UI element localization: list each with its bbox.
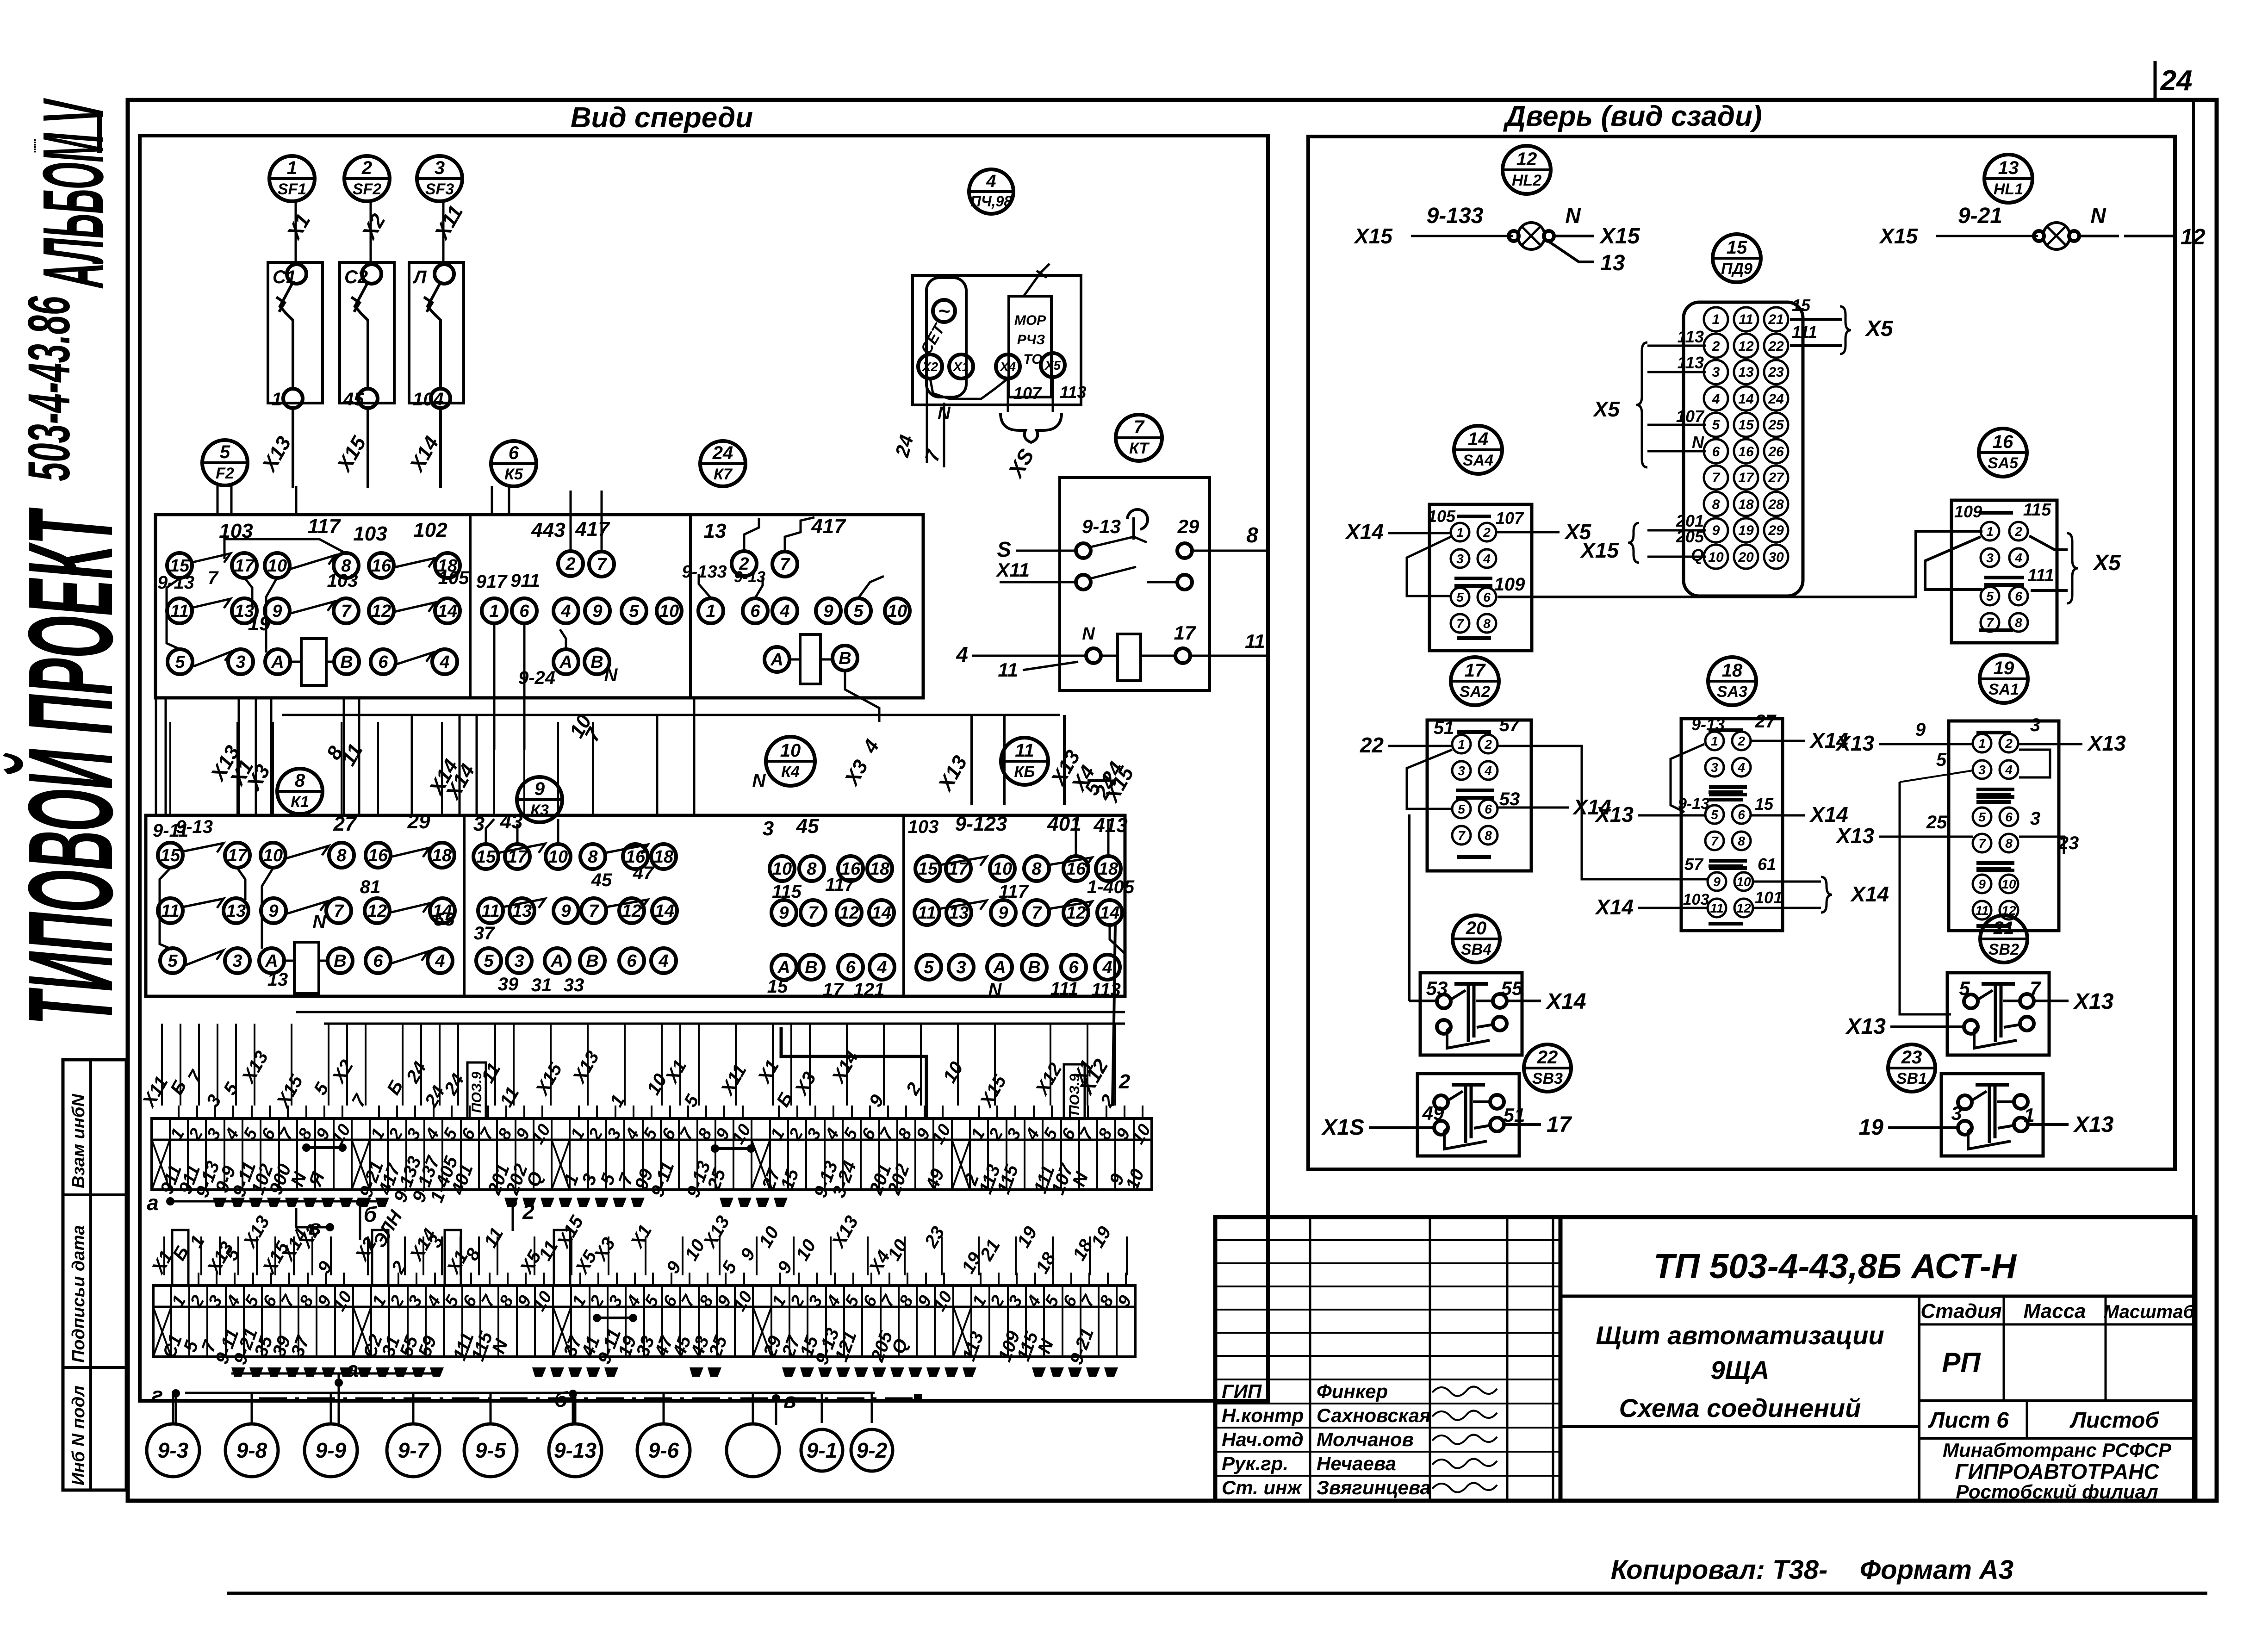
svg-text:HL1: HL1 xyxy=(1994,180,2023,198)
svg-text:57: 57 xyxy=(1684,855,1704,874)
svg-text:9-6: 9-6 xyxy=(648,1438,679,1462)
title divider under subject xyxy=(1560,1425,1919,1428)
band2 sec1 hooks xyxy=(160,868,173,950)
svg-text:28: 28 xyxy=(1768,497,1784,512)
wire X12 from band2 right edge xyxy=(1112,924,1115,1106)
front-view panel box xyxy=(140,136,1268,1401)
svg-text:Формат А3: Формат А3 xyxy=(1860,1555,2013,1585)
svg-text:4: 4 xyxy=(986,172,996,191)
svg-text:б: б xyxy=(364,1202,378,1226)
relay K7 designator xyxy=(700,441,746,486)
svg-text:SA3: SA3 xyxy=(1717,683,1747,701)
strip B collector to node b xyxy=(569,1390,577,1398)
svg-text:Нач.отд: Нач.отд xyxy=(1222,1429,1304,1450)
svg-text:10: 10 xyxy=(548,847,568,867)
svg-text:7: 7 xyxy=(1986,615,1994,630)
breaker SF3 bottom terminal xyxy=(431,389,450,408)
band2 sec1 circles row2 xyxy=(158,898,183,923)
lamp HL2 wire 13 xyxy=(1549,242,1594,262)
svg-text:8: 8 xyxy=(1485,828,1492,843)
SA1 right hooks xyxy=(2019,750,2050,777)
svg-text:113: 113 xyxy=(1678,353,1704,372)
svg-text:3: 3 xyxy=(1978,763,1986,777)
svg-text:117: 117 xyxy=(999,882,1029,902)
svg-text:7: 7 xyxy=(1134,417,1145,437)
svg-text:6: 6 xyxy=(750,602,760,621)
svg-text:21: 21 xyxy=(1768,312,1783,327)
KT right terminal 17 xyxy=(1175,648,1190,663)
svg-text:9: 9 xyxy=(1712,523,1720,538)
svg-text:3: 3 xyxy=(1456,552,1464,566)
svg-text:3: 3 xyxy=(1986,551,1994,565)
svg-text:18: 18 xyxy=(870,859,890,879)
wires down right of band2 xyxy=(970,715,973,805)
band2 sec1 coil rectangle xyxy=(294,942,319,994)
svg-text:5: 5 xyxy=(1986,589,1994,603)
svg-text:Ростобский филиал: Ростобский филиал xyxy=(1956,1481,2158,1503)
relay K1 designator xyxy=(277,769,323,814)
svg-text:9-13: 9-13 xyxy=(157,572,194,593)
svg-text:10: 10 xyxy=(267,556,287,576)
svg-text:X11: X11 xyxy=(995,559,1030,581)
switch SA4 box xyxy=(1429,504,1532,651)
band2 sec2 wires xyxy=(486,819,494,844)
svg-text:917: 917 xyxy=(476,572,508,592)
svg-text:17: 17 xyxy=(228,846,248,865)
svg-text:53: 53 xyxy=(1426,977,1448,999)
svg-text:Листоб: Листоб xyxy=(2069,1408,2159,1433)
lamp symbol HL1 xyxy=(1936,235,2038,237)
svg-text:17: 17 xyxy=(823,980,844,1000)
svg-text:16: 16 xyxy=(1993,432,2013,452)
band2 divider a xyxy=(463,815,466,996)
svg-text:117: 117 xyxy=(308,515,342,538)
svg-text:33: 33 xyxy=(564,975,584,995)
svg-text:X4: X4 xyxy=(999,360,1016,374)
left margin stamp column boxes xyxy=(63,1060,126,1490)
SB2 wire X13 xyxy=(2034,1000,2069,1002)
svg-text:X13: X13 xyxy=(2073,1112,2114,1137)
switch SA4 designator xyxy=(1454,426,1502,474)
svg-text:103: 103 xyxy=(353,522,387,545)
svg-text:5: 5 xyxy=(1712,417,1721,433)
svg-text:9-13: 9-13 xyxy=(1691,715,1725,734)
SB1 wire 19 xyxy=(1888,1126,1958,1129)
title sheet row xyxy=(1919,1399,2195,1402)
page number 24 tick xyxy=(2154,61,2157,100)
svg-text:3: 3 xyxy=(1711,760,1718,775)
svg-text:12: 12 xyxy=(1516,149,1537,169)
title stage columns xyxy=(1918,1296,1920,1501)
svg-text:6: 6 xyxy=(519,602,529,621)
wire SF2 designator to box xyxy=(370,201,372,262)
band1 sec3 bottom circles xyxy=(764,647,789,672)
svg-text:2: 2 xyxy=(1483,525,1491,540)
svg-text:1: 1 xyxy=(1978,736,1986,751)
svg-text:7: 7 xyxy=(780,555,790,574)
svg-text:3: 3 xyxy=(435,158,445,178)
svg-text:15: 15 xyxy=(1738,417,1754,433)
PCh98 inner relay block xyxy=(1009,296,1051,397)
unit PCh98 box xyxy=(913,275,1081,405)
terminal strip A xyxy=(152,1118,1152,1190)
svg-text:N: N xyxy=(1565,204,1581,228)
svg-text:24: 24 xyxy=(712,443,733,463)
lamp HL1 designator xyxy=(1984,155,2032,203)
svg-text:55: 55 xyxy=(434,909,455,930)
svg-text:К7: К7 xyxy=(714,466,733,483)
SB2 wire X13 left xyxy=(1890,1025,1964,1028)
node v right xyxy=(772,1394,780,1403)
svg-text:В: В xyxy=(805,958,817,977)
terminal strip B teeth xyxy=(231,1367,245,1377)
KT wire to 11 xyxy=(1190,655,1268,657)
svg-text:ГИПРОАВТОТРАНС: ГИПРОАВТОТРАНС xyxy=(1955,1460,2159,1484)
svg-text:31: 31 xyxy=(531,975,552,995)
svg-text:10: 10 xyxy=(263,846,283,865)
band2 sec4 wires xyxy=(1075,819,1077,856)
wires above band2 xyxy=(169,722,171,815)
svg-text:ГИП: ГИП xyxy=(1222,1380,1262,1402)
svg-text:12: 12 xyxy=(372,602,391,621)
switch SA2 designator xyxy=(1451,657,1499,705)
svg-text:10: 10 xyxy=(993,859,1012,879)
band1 sec1 coil rectangle xyxy=(301,639,326,685)
svg-text:X15: X15 xyxy=(1353,224,1393,248)
SA3 wire X14 top xyxy=(1752,740,1805,742)
svg-text:12: 12 xyxy=(2001,903,2016,918)
band1 sec1 contact strokes xyxy=(193,553,230,563)
svg-text:6: 6 xyxy=(1483,590,1491,604)
svg-text:11: 11 xyxy=(1975,903,1988,918)
svg-text:105: 105 xyxy=(1428,507,1456,526)
svg-text:17: 17 xyxy=(1738,470,1754,485)
svg-text:SF2: SF2 xyxy=(353,180,381,198)
svg-text:5: 5 xyxy=(175,652,185,672)
door panel box xyxy=(1308,137,2175,1169)
svg-text:10: 10 xyxy=(2001,877,2016,891)
svg-text:11: 11 xyxy=(918,903,936,923)
svg-text:▪▪▪▪▪▪: ▪▪▪▪▪▪ xyxy=(31,139,38,153)
svg-text:19: 19 xyxy=(1859,1115,1884,1140)
svg-text:103: 103 xyxy=(327,571,358,591)
svg-text:В: В xyxy=(586,951,598,971)
svg-text:SF3: SF3 xyxy=(425,180,454,198)
svg-text:3: 3 xyxy=(2030,808,2040,829)
button SB4 box xyxy=(1420,973,1522,1055)
band2 sec1 contact strokes xyxy=(183,843,224,852)
svg-text:7: 7 xyxy=(1456,616,1464,631)
button SB3 box xyxy=(1417,1074,1519,1156)
wire below breaker SF2 xyxy=(367,408,369,488)
svg-text:9: 9 xyxy=(823,602,833,621)
svg-text:КБ: КБ xyxy=(1014,763,1035,781)
svg-text:14: 14 xyxy=(1468,429,1489,449)
svg-text:16: 16 xyxy=(368,846,388,865)
svg-text:15: 15 xyxy=(1727,237,1747,258)
SB4 left entry wire xyxy=(1409,1000,1437,1002)
svg-text:16: 16 xyxy=(1738,444,1754,460)
terminal strip A teeth xyxy=(213,1198,227,1207)
svg-text:5: 5 xyxy=(1458,802,1465,816)
band2 sec2 contact strokes xyxy=(498,844,545,853)
svg-text:6: 6 xyxy=(1069,958,1079,977)
connector PD9 pins xyxy=(1704,307,1728,331)
svg-text:7: 7 xyxy=(808,903,819,923)
relay contact band 1 box xyxy=(155,515,923,698)
bottom circle 9-13 xyxy=(549,1424,602,1477)
svg-text:Молчанов: Молчанов xyxy=(1317,1429,1414,1450)
svg-text:2: 2 xyxy=(565,554,575,574)
svg-text:Масса: Масса xyxy=(2023,1300,2086,1323)
bottom circle 9-6 xyxy=(637,1424,690,1477)
band2 sec1 circles row1 xyxy=(158,843,183,868)
svg-text:Сахновская: Сахновская xyxy=(1317,1404,1431,1426)
band1 divider a xyxy=(469,515,472,698)
svg-text:19: 19 xyxy=(1738,523,1754,538)
relay K3 designator xyxy=(517,777,562,822)
SA2 wire 22 xyxy=(1388,745,1452,747)
svg-text:105: 105 xyxy=(438,568,469,588)
PCh98 terminal X5 xyxy=(1041,353,1065,377)
svg-text:5: 5 xyxy=(1936,750,1947,770)
svg-text:7: 7 xyxy=(589,901,599,921)
svg-text:К1: К1 xyxy=(291,793,309,811)
breaker SF3 top terminal xyxy=(435,264,454,284)
svg-text:9-133: 9-133 xyxy=(1427,204,1484,228)
connector PD9 body xyxy=(1684,302,1803,596)
svg-text:6: 6 xyxy=(1738,808,1745,822)
svg-text:12: 12 xyxy=(839,903,859,923)
svg-text:11: 11 xyxy=(998,659,1018,681)
svg-text:N: N xyxy=(604,665,618,685)
svg-text:2: 2 xyxy=(1118,1070,1131,1093)
breaker SF1 bottom terminal xyxy=(283,389,303,408)
svg-text:10: 10 xyxy=(1708,550,1724,565)
svg-text:4: 4 xyxy=(1737,760,1745,775)
svg-text:X5: X5 xyxy=(1864,317,1894,341)
bottom circle blank xyxy=(727,1424,779,1477)
svg-text:45: 45 xyxy=(796,815,819,838)
relay K5 designator xyxy=(491,441,536,486)
svg-text:6: 6 xyxy=(2005,810,2013,824)
bottom circle 9-7 xyxy=(387,1424,440,1477)
svg-text:3: 3 xyxy=(473,813,485,835)
svg-text:107: 107 xyxy=(1496,509,1524,528)
svg-text:МОР: МОР xyxy=(1014,313,1046,328)
svg-text:3: 3 xyxy=(956,958,966,977)
svg-text:107: 107 xyxy=(1013,384,1042,403)
svg-text:8: 8 xyxy=(807,859,817,879)
svg-text:22: 22 xyxy=(1768,339,1784,354)
svg-text:9: 9 xyxy=(272,602,282,621)
svg-text:КТ: КТ xyxy=(1129,440,1150,457)
svg-text:8: 8 xyxy=(1483,616,1491,631)
SB3 wire 17 xyxy=(1504,1123,1541,1126)
svg-text:8: 8 xyxy=(1738,834,1745,848)
svg-text:7: 7 xyxy=(208,568,219,588)
lamp HL1 right label 12 xyxy=(2124,235,2175,237)
unit PCh98 designator xyxy=(969,169,1013,214)
KT row1 wire S xyxy=(1016,550,1076,552)
SA4 left hook wire xyxy=(1407,537,1451,596)
svg-text:Рук.гр.: Рук.гр. xyxy=(1222,1453,1288,1474)
svg-text:Масштаб: Масштаб xyxy=(2104,1302,2195,1322)
svg-text:Ст. инж: Ст. инж xyxy=(1222,1477,1302,1498)
SA1 wire X13 right xyxy=(2019,743,2082,745)
svg-text:11: 11 xyxy=(170,602,188,621)
svg-text:Звягинцева: Звягинцева xyxy=(1317,1477,1431,1498)
svg-text:4: 4 xyxy=(439,652,449,672)
svg-text:А: А xyxy=(770,650,783,670)
band2 sec2 circles row2 xyxy=(478,898,503,923)
svg-text:N: N xyxy=(1082,624,1095,644)
svg-text:9: 9 xyxy=(779,903,789,923)
svg-text:X5: X5 xyxy=(2092,551,2121,575)
svg-text:55: 55 xyxy=(1501,977,1523,999)
svg-text:3: 3 xyxy=(1951,1102,1962,1124)
svg-text:АЛЬБОМ V: АЛЬБОМ V xyxy=(25,98,121,288)
svg-text:9: 9 xyxy=(592,602,602,621)
svg-text:ПОЗ.9: ПОЗ.9 xyxy=(1067,1074,1082,1115)
SA2 long wire to SA3 xyxy=(1498,746,1707,879)
svg-text:1: 1 xyxy=(1712,312,1720,327)
svg-text:N: N xyxy=(313,912,327,932)
svg-text:25: 25 xyxy=(1768,417,1784,433)
svg-text:417: 417 xyxy=(811,515,846,538)
solid bus under strip B xyxy=(185,1392,875,1394)
svg-text:9: 9 xyxy=(534,779,545,799)
strip A node v xyxy=(326,1223,334,1231)
title block outer xyxy=(1215,1217,2195,1501)
svg-text:117: 117 xyxy=(825,875,856,895)
svg-text:Вид спереди: Вид спереди xyxy=(571,102,753,134)
svg-text:13: 13 xyxy=(226,901,246,921)
svg-text:А: А xyxy=(271,652,284,672)
KT row2 contact xyxy=(1091,567,1136,578)
svg-text:6: 6 xyxy=(1712,444,1720,460)
svg-text:113: 113 xyxy=(1091,980,1121,1000)
svg-text:1: 1 xyxy=(287,158,297,178)
svg-text:N: N xyxy=(988,980,1002,1000)
PCh98 wire N hook xyxy=(930,379,1008,399)
KT row1 left terminal xyxy=(1076,543,1091,558)
svg-text:X14: X14 xyxy=(1594,895,1634,919)
strip B collector to node g xyxy=(172,1389,180,1398)
svg-text:43: 43 xyxy=(500,810,523,833)
button SB3 designator xyxy=(1524,1044,1571,1092)
svg-text:51: 51 xyxy=(1434,718,1454,738)
svg-text:109: 109 xyxy=(1494,574,1525,595)
svg-text:SB1: SB1 xyxy=(1896,1070,1927,1087)
svg-text:9-7: 9-7 xyxy=(398,1438,430,1462)
band1 sec2 top circles xyxy=(558,551,583,576)
svg-text:1: 1 xyxy=(706,602,715,621)
svg-text:49: 49 xyxy=(1422,1102,1444,1124)
band1 sec3 top circles xyxy=(732,551,757,576)
svg-text:23: 23 xyxy=(1901,1047,1922,1068)
svg-text:7: 7 xyxy=(1978,836,1986,851)
wires into band1 top xyxy=(217,486,219,515)
band2 divider b xyxy=(902,815,905,996)
band2 sec3 circles row2 xyxy=(771,900,796,925)
KT row2 right terminal xyxy=(1177,575,1192,590)
svg-text:N: N xyxy=(1692,433,1704,452)
svg-text:9ЩА: 9ЩА xyxy=(1711,1355,1770,1385)
SA3 wire X13 xyxy=(1638,814,1704,817)
breaker SF1 box xyxy=(268,262,323,403)
svg-text:Инб N подл: Инб N подл xyxy=(69,1385,88,1485)
svg-text:X13: X13 xyxy=(1835,824,1874,848)
PD9 left wires X5 group xyxy=(1647,345,1706,347)
title block name rows xyxy=(1215,1379,1560,1380)
button SB1 box xyxy=(1941,1074,2043,1156)
SB1 wire X13 xyxy=(2028,1123,2069,1126)
title block thin rows xyxy=(1215,1239,1560,1241)
svg-text:4: 4 xyxy=(1484,764,1492,778)
svg-text:101: 101 xyxy=(1755,888,1783,907)
svg-text:Щит автоматизации: Щит автоматизации xyxy=(1596,1321,1884,1350)
svg-text:12: 12 xyxy=(1736,901,1751,915)
wire below breaker SF1 xyxy=(292,408,294,488)
svg-text:1: 1 xyxy=(1711,734,1718,748)
svg-text:111: 111 xyxy=(1792,323,1817,342)
time relay KT box xyxy=(1060,478,1210,690)
SA2 left hook xyxy=(1407,750,1452,809)
strip A collector a xyxy=(170,1200,384,1203)
connector PD9 designator xyxy=(1713,234,1761,282)
svg-text:5: 5 xyxy=(1978,810,1986,824)
svg-text:А: А xyxy=(777,958,790,977)
svg-text:9: 9 xyxy=(1713,875,1721,889)
svg-text:7: 7 xyxy=(1712,470,1721,485)
bottom circle 9-8 xyxy=(225,1424,278,1477)
svg-text:5: 5 xyxy=(1959,977,1970,999)
svg-text:4: 4 xyxy=(435,951,445,971)
svg-text:X13: X13 xyxy=(2073,989,2114,1014)
button SB1 designator xyxy=(1888,1044,1935,1092)
SA3 wire X14 low xyxy=(1638,907,1707,909)
svg-text:В: В xyxy=(1028,958,1040,977)
svg-text:109: 109 xyxy=(1954,502,1982,521)
SA4 109 wire to SA5 xyxy=(1498,531,1982,597)
svg-text:113: 113 xyxy=(1060,383,1086,402)
svg-text:7: 7 xyxy=(1711,834,1719,848)
svg-text:17: 17 xyxy=(1174,622,1196,644)
svg-text:14: 14 xyxy=(1738,391,1754,407)
svg-text:5: 5 xyxy=(1456,590,1464,604)
SA4 wire X14 xyxy=(1388,532,1451,534)
svg-text:а: а xyxy=(347,1357,359,1381)
PCh98 wires down left xyxy=(926,379,928,463)
wire below breaker SF3 xyxy=(439,408,442,488)
svg-text:10: 10 xyxy=(772,859,792,879)
svg-text:1: 1 xyxy=(1458,737,1465,752)
fuse F2 designator xyxy=(202,440,248,485)
svg-text:14: 14 xyxy=(872,903,891,923)
svg-text:29: 29 xyxy=(407,810,430,833)
svg-text:Стадия: Стадия xyxy=(1920,1300,2001,1323)
svg-text:20: 20 xyxy=(1466,918,1487,938)
svg-text:1: 1 xyxy=(2024,1104,2034,1126)
svg-text:5: 5 xyxy=(1711,808,1718,822)
SB4 wire X14 xyxy=(1507,1000,1541,1002)
svg-text:10: 10 xyxy=(1736,875,1751,889)
svg-text:18: 18 xyxy=(1722,660,1743,681)
svg-text:г: г xyxy=(152,1383,163,1407)
svg-text:3: 3 xyxy=(1458,764,1465,778)
svg-text:7: 7 xyxy=(334,901,344,921)
